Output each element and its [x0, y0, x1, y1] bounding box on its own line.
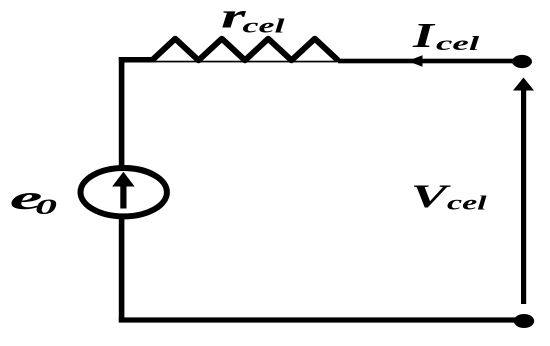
wire: left vertical, top section	[119, 57, 125, 169]
V_cel arrowhead (points up)	[513, 78, 534, 91]
node: top-right terminal dot	[512, 55, 532, 68]
wire: bottom horizontal	[119, 317, 516, 322]
wire: left vertical, bottom section	[119, 215, 125, 323]
voltage source arrowhead	[112, 172, 134, 187]
svg-text:cel: cel	[243, 15, 286, 37]
current arrowhead I_cel (points left)	[408, 55, 423, 67]
voltage source U (e_0) ellipse	[81, 168, 167, 216]
svg-text:I: I	[412, 16, 436, 55]
wire: resistor thin baseline	[150, 61, 338, 63]
svg-text:cel: cel	[436, 33, 480, 55]
wire: right vertical	[521, 89, 526, 304]
wire: top-left horizontal	[119, 57, 153, 63]
svg-text:0: 0	[35, 194, 57, 219]
svg-text:V: V	[411, 178, 452, 215]
voltage source arrow shaft	[120, 184, 126, 209]
node: bottom-right terminal dot	[514, 314, 534, 328]
wire: top-right horizontal	[338, 59, 518, 64]
svg-text:cel: cel	[447, 192, 487, 214]
resistor R (r_cel) zigzag	[152, 39, 338, 61]
